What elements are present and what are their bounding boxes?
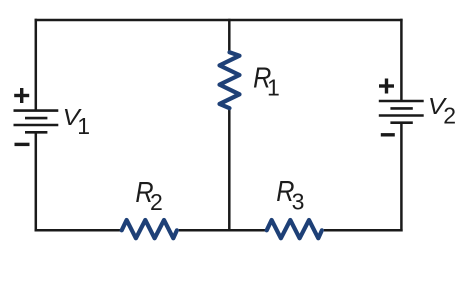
svg-text:1: 1 [267,74,280,100]
svg-text:2: 2 [443,103,456,129]
svg-text:1: 1 [77,113,90,139]
svg-text:2: 2 [150,189,163,215]
svg-text:3: 3 [292,188,305,214]
